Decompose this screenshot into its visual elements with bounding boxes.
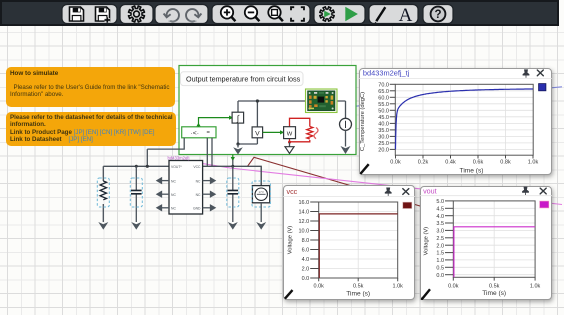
ground open triangle: [289, 142, 291, 146]
thermal resistor R2: [307, 127, 313, 140]
svg-text:0.0k: 0.0k: [390, 160, 401, 166]
svg-text:20.0: 20.0: [378, 148, 389, 154]
zoom-in button: [221, 6, 236, 21]
pin 6 NC arrow: [203, 192, 215, 197]
ground under C2: [228, 222, 238, 230]
resistor R1: [97, 166, 109, 222]
svg-text:C_Temperature (degC): C_Temperature (degC): [360, 92, 366, 151]
svg-text:vout: vout: [423, 186, 437, 195]
voltage source V1: [252, 166, 270, 207]
svg-text:8.0: 8.0: [302, 238, 310, 244]
svg-text:1.0k: 1.0k: [529, 283, 540, 289]
undo button: [164, 9, 179, 22]
pin 7 NC arrow: [203, 178, 215, 183]
help button: [431, 7, 446, 22]
schematic title note: [181, 72, 304, 86]
text button: [399, 5, 413, 26]
ground under source U6: [341, 146, 351, 154]
svg-text:6.0: 6.0: [302, 248, 310, 254]
toolbar: [0, 0, 559, 26]
svg-text:12.0: 12.0: [299, 219, 310, 225]
svg-text:65.0: 65.0: [378, 89, 389, 95]
node C1 top: [135, 165, 138, 168]
svg-text:0.2k: 0.2k: [418, 160, 429, 166]
wire comparator feedback to vout rail: [147, 138, 184, 167]
IC U1 bd433m2efj: [169, 161, 203, 215]
svg-text:16.0: 16.0: [299, 200, 310, 206]
svg-text:Time (s): Time (s): [460, 168, 484, 175]
svg-text:1.0k: 1.0k: [528, 160, 539, 166]
svg-text:VOUT*: VOUT*: [171, 165, 182, 169]
wire voltmeter U4 top: [256, 101, 258, 127]
wire V1 to ground: [260, 203, 262, 222]
svg-text:NC: NC: [171, 193, 176, 197]
yellow note 2: [6, 112, 176, 146]
svg-text:V: V: [255, 131, 260, 138]
pin 2 NC arrow: [157, 178, 169, 183]
wire to ambient source U6: [345, 101, 347, 118]
redo button: [186, 9, 201, 22]
ground under R1: [98, 222, 108, 230]
svg-text:10.0: 10.0: [299, 229, 310, 235]
wire vout rail: [103, 165, 169, 167]
svg-text:60.0: 60.0: [378, 96, 389, 102]
pin 5 GND arrow: [203, 205, 215, 210]
green vcc tap arrow: [231, 155, 235, 162]
integrator U3: [232, 112, 244, 123]
svg-text:17V: 17V: [259, 190, 264, 194]
ground under integrator: [237, 144, 239, 148]
svg-text:4.0: 4.0: [436, 213, 444, 219]
plot window vcc: [283, 185, 415, 300]
svg-text:14.0: 14.0: [299, 210, 310, 216]
svg-text:0.8k: 0.8k: [500, 160, 511, 166]
svg-text:4.0: 4.0: [302, 257, 310, 263]
ambient source U6: [340, 118, 352, 130]
wattmeter U5: [284, 127, 296, 139]
svg-text:bd433m2efj_tj: bd433m2efj_tj: [363, 69, 410, 78]
svg-text:bd433m2efj: bd433m2efj: [168, 156, 190, 161]
ground under C1: [131, 222, 141, 230]
svg-text:0.4k: 0.4k: [445, 160, 456, 166]
svg-text:0.0k: 0.0k: [314, 283, 325, 289]
thermal model block frame: [179, 66, 356, 155]
svg-text:3.5: 3.5: [436, 221, 444, 227]
voltmeter U4: [252, 127, 263, 138]
svg-text:Voltage (V): Voltage (V): [288, 226, 294, 255]
svg-text:0.6k: 0.6k: [473, 160, 484, 166]
wire integrator U3 output: [237, 123, 239, 144]
svg-text:NC: NC: [196, 179, 201, 183]
svg-text:NC: NC: [171, 207, 176, 211]
probe wire net tj (blue) from PCB to plot: [337, 87, 563, 108]
svg-text:2.5: 2.5: [436, 235, 444, 241]
settings gear button: [128, 6, 144, 22]
svg-text:2.0: 2.0: [436, 243, 444, 249]
svg-text:0.0: 0.0: [302, 276, 310, 282]
svg-text:1.0: 1.0: [436, 257, 444, 263]
capacitor C1: [130, 166, 142, 222]
svg-text:NC: NC: [196, 193, 201, 197]
wire top thermal rail: [238, 100, 346, 102]
save-as button: [96, 7, 111, 23]
svg-text:·<·: ·<·: [191, 130, 200, 137]
svg-text:VCC: VCC: [193, 165, 201, 169]
pin 3 NC arrow: [157, 192, 169, 197]
plot window vout: [420, 186, 552, 301]
plot window bd433m2efj_tj: [359, 68, 552, 175]
svg-text:0.5: 0.5: [436, 265, 444, 271]
ground under V1: [256, 222, 266, 230]
probe wire net vout (magenta): [189, 161, 562, 204]
green wire comparator to integrator: [199, 118, 230, 127]
svg-text:0.0: 0.0: [436, 272, 444, 278]
svg-text:Time (s): Time (s): [347, 291, 371, 298]
svg-text:Output temperature from circui: Output temperature from circuit loss: [186, 74, 301, 83]
svg-text:vcc: vcc: [287, 187, 298, 196]
wire comparator sense pair: [207, 138, 212, 167]
run-settings gear button: [320, 7, 334, 21]
selection button: [291, 7, 304, 21]
capacitor C2: [227, 166, 239, 222]
node red loop bottom: [288, 141, 291, 144]
probe wire net tj stub at PCB corner: [306, 110, 314, 119]
wire vcc tap to rail: [232, 160, 234, 166]
svg-text:55.0: 55.0: [378, 102, 389, 108]
PCB thermal model image: [306, 89, 338, 113]
svg-text:25.0: 25.0: [378, 141, 389, 147]
svg-text:W: W: [287, 131, 293, 137]
svg-text:0.5k: 0.5k: [353, 283, 364, 289]
svg-text:5.0: 5.0: [436, 199, 444, 205]
node C2 top: [231, 165, 234, 168]
green wire voltmeter to wattmeter: [263, 131, 281, 133]
svg-text:35.0: 35.0: [378, 128, 389, 134]
svg-text:70.0: 70.0: [378, 83, 389, 89]
red wire loss loop: [290, 118, 310, 142]
svg-text:45.0: 45.0: [378, 115, 389, 121]
draw pen button: [375, 7, 386, 23]
svg-text:Voltage (V): Voltage (V): [423, 226, 429, 255]
wire integrator to voltmeter: [238, 138, 257, 144]
svg-text:50.0: 50.0: [378, 109, 389, 115]
svg-text:4.5: 4.5: [436, 206, 444, 212]
svg-text:30.0: 30.0: [378, 135, 389, 141]
wire source U6 to ground: [345, 130, 347, 146]
save button: [70, 7, 84, 21]
wire integrator U3 input: [237, 101, 239, 112]
svg-text:40.0: 40.0: [378, 122, 389, 128]
svg-text:1.0k: 1.0k: [393, 283, 404, 289]
thermal squiggle mark: [314, 128, 318, 139]
probe wire net vcc (maroon): [248, 157, 421, 206]
svg-text:0.5k: 0.5k: [489, 283, 500, 289]
zoom-out button: [245, 6, 260, 21]
svg-text:NC: NC: [171, 179, 176, 183]
pin 4 NC arrow: [157, 205, 169, 210]
wire vcc rail: [203, 166, 262, 185]
yellow note 1: [6, 67, 175, 107]
node feedback vout: [146, 165, 149, 168]
node integrator output: [236, 142, 239, 145]
comparator U2: [182, 127, 216, 138]
svg-text:GND: GND: [193, 207, 201, 211]
run button: [345, 7, 358, 21]
svg-text:3.0: 3.0: [436, 228, 444, 234]
svg-text:Time (s): Time (s): [482, 290, 506, 297]
svg-text:1.5: 1.5: [436, 250, 444, 256]
node tj top rail: [256, 99, 259, 102]
svg-text:0.0k: 0.0k: [448, 283, 459, 289]
zoom-reset button: [268, 6, 283, 21]
svg-text:2.0: 2.0: [302, 267, 310, 273]
